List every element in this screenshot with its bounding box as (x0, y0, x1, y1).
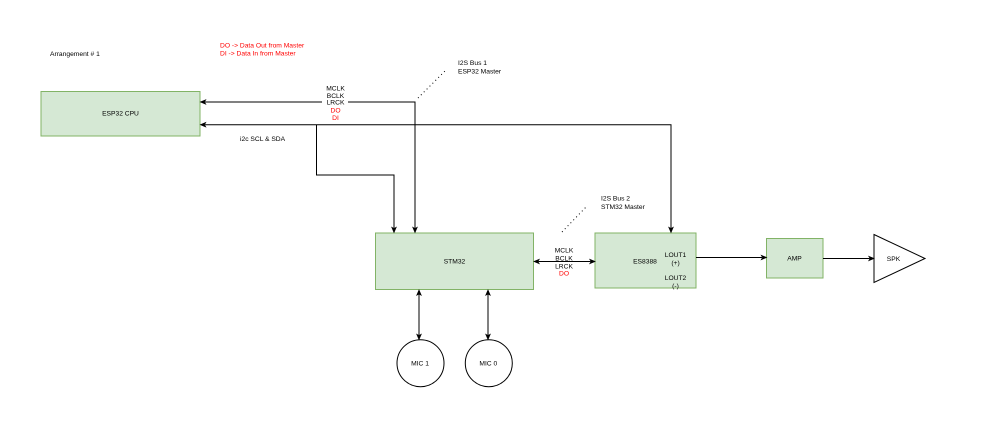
svg-text:STM32 Master: STM32 Master (601, 204, 646, 211)
mic MIC 0 (465, 340, 512, 387)
wire labels MCLK BCLK LRCK DO DI (bus 1) (322, 82, 348, 122)
svg-text:STM32: STM32 (444, 259, 466, 266)
svg-text:DO -> Data Out from Master: DO -> Data Out from Master (220, 42, 305, 49)
wire labels MCLK BCLK LRCK DO (bus 2) (555, 248, 574, 278)
svg-text:LRCK: LRCK (327, 100, 345, 107)
callout I2S Bus 1 / ESP32 Master (418, 60, 502, 98)
svg-text:DI -> Data In from Master: DI -> Data In from Master (220, 51, 296, 58)
svg-text:ESP32 Master: ESP32 Master (458, 68, 502, 75)
svg-text:MCLK: MCLK (555, 248, 574, 255)
svg-text:LOUT2: LOUT2 (665, 275, 687, 282)
speaker SPK (874, 235, 925, 283)
svg-text:LOUT1: LOUT1 (665, 252, 687, 259)
wire i2c SCL & SDA (ESP32 to STM32) (317, 125, 397, 233)
svg-text:Arrangement # 1: Arrangement # 1 (50, 51, 100, 58)
svg-text:I2S Bus 1: I2S Bus 1 (458, 60, 487, 67)
svg-text:ES8388: ES8388 (633, 259, 657, 266)
svg-text:DO: DO (559, 271, 569, 278)
svg-text:MCLK: MCLK (326, 86, 345, 93)
svg-text:(+): (+) (671, 260, 679, 267)
wire ES8388 LOUT to AMP (696, 255, 767, 259)
svg-text:LRCK: LRCK (555, 263, 573, 270)
svg-text:BCLK: BCLK (555, 256, 573, 263)
svg-text:ESP32 CPU: ESP32 CPU (102, 111, 139, 118)
wire I2S bus 1 (ESP32 to STM32) (201, 100, 418, 233)
mic MIC 1 (397, 340, 444, 387)
svg-text:MIC 1: MIC 1 (411, 360, 429, 367)
wire AMP to SPK (823, 256, 874, 260)
svg-text:i2c SCL & SDA: i2c SCL & SDA (240, 136, 286, 143)
block ES8388 (595, 233, 696, 288)
label i2c SCL & SDA (240, 136, 286, 143)
wire STM32 to MIC 0 (double arrow) (486, 290, 490, 340)
block ESP32 CPU (41, 92, 200, 137)
svg-text:DI: DI (332, 115, 339, 122)
svg-text:SPK: SPK (887, 256, 901, 263)
svg-text:MIC 0: MIC 0 (479, 360, 497, 367)
svg-text:AMP: AMP (787, 255, 802, 262)
wire STM32 to MIC 1 (double arrow) (417, 290, 421, 340)
legend DO/DI red notes (220, 42, 305, 57)
block STM32 (376, 233, 534, 290)
title Arrangement # 1 (50, 51, 100, 58)
block AMP (767, 239, 824, 279)
pin label LOUT1 (+) (665, 252, 687, 267)
wire I2S bus 2 (STM32 to ES8388, double arrow) (534, 259, 595, 263)
svg-text:DO: DO (330, 108, 340, 115)
svg-text:(-): (-) (672, 283, 679, 290)
wire DI line (ESP32 to ES8388) (201, 123, 674, 233)
callout I2S Bus 2 / STM32 Master (562, 196, 646, 232)
svg-text:I2S Bus 2: I2S Bus 2 (601, 196, 630, 203)
pin label LOUT2 (-) (665, 275, 687, 290)
